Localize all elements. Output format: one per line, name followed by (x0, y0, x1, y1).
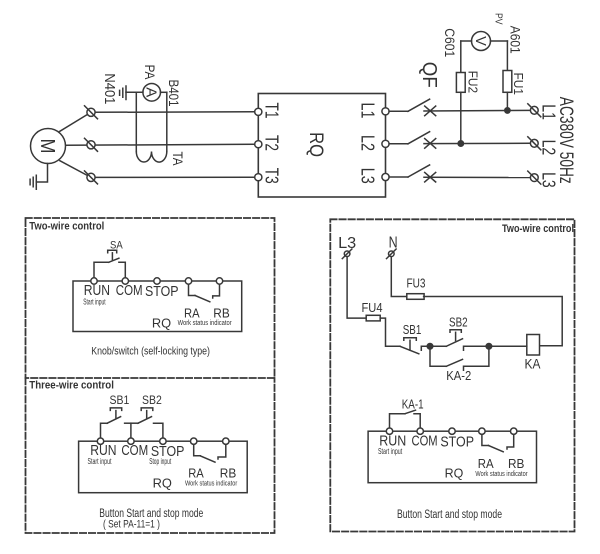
svg-text:STOP: STOP (145, 283, 179, 300)
svg-text:L1: L1 (358, 103, 378, 119)
svg-text:KA-2: KA-2 (446, 369, 471, 383)
svg-text:Work status indicator: Work status indicator (185, 480, 238, 487)
svg-text:L3: L3 (358, 168, 378, 184)
svg-text:C601: C601 (442, 28, 457, 57)
svg-text:Two-wire control: Two-wire control (502, 223, 574, 235)
svg-text:AC380V 50Hz: AC380V 50Hz (555, 97, 576, 184)
svg-text:Start input: Start input (88, 457, 113, 466)
svg-text:L3: L3 (338, 235, 356, 252)
svg-text:RB: RB (508, 456, 524, 471)
svg-text:Knob/switch (self-locking type: Knob/switch (self-locking type) (91, 346, 210, 358)
svg-text:TA: TA (170, 152, 186, 167)
svg-text:A601: A601 (508, 26, 523, 54)
svg-text:FU4: FU4 (362, 300, 383, 315)
svg-text:SB2: SB2 (449, 315, 468, 329)
svg-text:RA: RA (184, 306, 200, 321)
svg-text:T3: T3 (262, 168, 282, 184)
svg-text:A: A (143, 87, 160, 97)
svg-text:M: M (36, 139, 58, 154)
svg-text:RQ: RQ (153, 476, 172, 491)
svg-text:FU1: FU1 (511, 72, 526, 95)
svg-text:SB1: SB1 (110, 395, 130, 407)
svg-text:Two-wire control: Two-wire control (29, 221, 104, 233)
svg-text:Start input: Start input (378, 447, 403, 456)
svg-text:PA: PA (142, 65, 158, 81)
svg-text:RQ: RQ (152, 315, 171, 330)
svg-text:COM: COM (121, 442, 148, 459)
svg-text:KA-1: KA-1 (402, 397, 424, 412)
svg-text:Button Start and stop mode: Button Start and stop mode (397, 509, 502, 521)
svg-text:Three-wire control: Three-wire control (29, 380, 114, 392)
svg-text:RQ: RQ (445, 466, 464, 481)
svg-text:V: V (472, 36, 488, 46)
svg-text:SA: SA (110, 240, 124, 252)
svg-text:RA: RA (188, 466, 204, 481)
svg-text:KA: KA (525, 357, 542, 372)
svg-text:QF: QF (418, 62, 440, 88)
svg-text:N401: N401 (101, 73, 117, 104)
svg-text:Work status indicator: Work status indicator (178, 320, 233, 327)
svg-text:COM: COM (412, 433, 438, 450)
svg-text:( Set PA-11=1 ): ( Set PA-11=1 ) (103, 519, 160, 531)
svg-text:L2: L2 (358, 135, 378, 151)
svg-text:RUN: RUN (84, 282, 110, 299)
svg-text:B401: B401 (166, 80, 182, 107)
svg-text:STOP: STOP (440, 433, 474, 450)
svg-text:FU3: FU3 (407, 276, 426, 291)
svg-text:SB1: SB1 (403, 323, 422, 337)
svg-text:RA: RA (478, 456, 494, 471)
svg-text:Work status indicator: Work status indicator (475, 471, 528, 478)
svg-text:T2: T2 (262, 135, 282, 151)
svg-text:Start input: Start input (83, 298, 106, 307)
svg-text:T1: T1 (262, 103, 282, 119)
svg-text:FU2: FU2 (466, 71, 481, 94)
svg-text:RB: RB (220, 466, 237, 481)
svg-text:PV: PV (493, 13, 504, 25)
svg-text:Stop input: Stop input (149, 457, 171, 466)
svg-text:SB2: SB2 (142, 395, 162, 407)
svg-text:RQ: RQ (305, 132, 326, 157)
svg-text:RB: RB (213, 306, 230, 321)
svg-text:N: N (389, 235, 398, 252)
svg-text:COM: COM (116, 282, 143, 299)
